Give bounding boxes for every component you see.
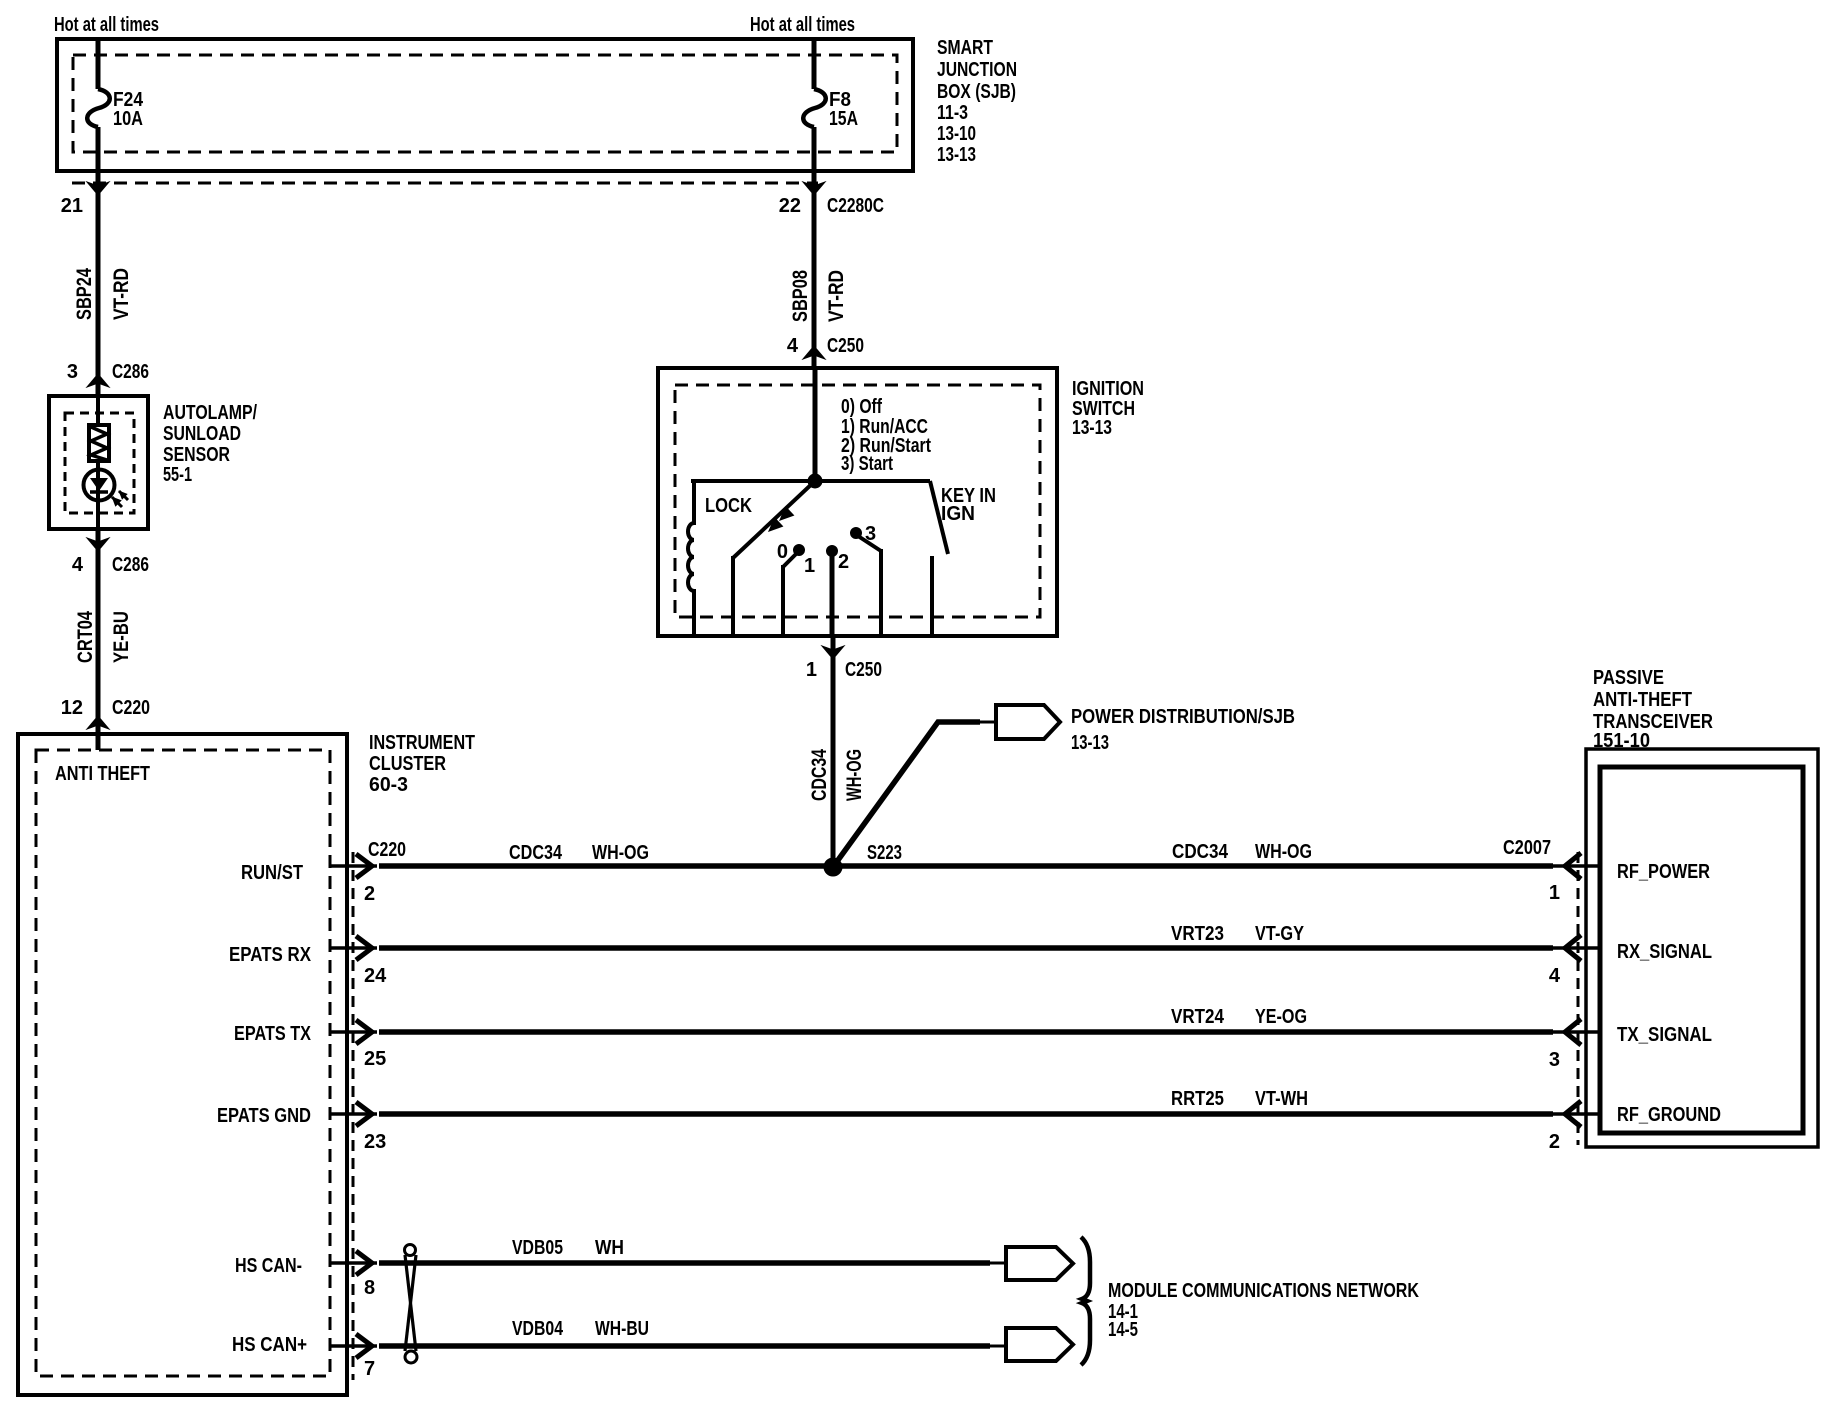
svg-text:2: 2 xyxy=(838,551,849,573)
svg-text:C250: C250 xyxy=(845,659,882,681)
splice S223 node xyxy=(824,858,842,876)
off-page pennant: module network (upper) xyxy=(1006,1247,1073,1280)
svg-text:PASSIVE: PASSIVE xyxy=(1593,667,1664,689)
svg-text:VRT23: VRT23 xyxy=(1171,923,1224,945)
svg-text:RUN/ST: RUN/ST xyxy=(241,862,303,884)
svg-text:CDC34: CDC34 xyxy=(509,842,563,864)
LOCK coil xyxy=(688,479,694,634)
svg-text:C286: C286 xyxy=(112,554,149,576)
wire F8 feed (lower) xyxy=(812,127,817,171)
svg-text:WH: WH xyxy=(595,1237,624,1259)
sensor light arrows xyxy=(112,497,122,507)
transceiver inner box xyxy=(1600,767,1803,1133)
svg-text:12: 12 xyxy=(61,697,83,719)
connector C220 arrow (up) xyxy=(87,716,109,729)
svg-text:3) Start: 3) Start xyxy=(841,453,893,475)
svg-text:MODULE COMMUNICATIONS NETWORK: MODULE COMMUNICATIONS NETWORK xyxy=(1108,1280,1419,1302)
wire VRT24 YE-OG xyxy=(379,1029,1553,1035)
svg-text:4: 4 xyxy=(1549,965,1561,987)
svg-text:VT-RD: VT-RD xyxy=(825,270,848,322)
cluster pin 25 arrow xyxy=(356,1020,372,1044)
fuse F8 15A xyxy=(803,89,826,127)
svg-text:EPATS GND: EPATS GND xyxy=(217,1105,311,1127)
svg-text:4: 4 xyxy=(72,554,84,576)
svg-text:TX_SIGNAL: TX_SIGNAL xyxy=(1617,1024,1712,1046)
svg-text:14-5: 14-5 xyxy=(1108,1319,1138,1341)
svg-text:BOX (SJB): BOX (SJB) xyxy=(937,81,1016,103)
svg-text:INSTRUMENT: INSTRUMENT xyxy=(369,732,475,754)
svg-text:VT-GY: VT-GY xyxy=(1255,923,1305,945)
svg-text:SBP24: SBP24 xyxy=(73,268,96,320)
connector arrow below ignition switch xyxy=(822,646,844,659)
wire F8 feed (upper) xyxy=(812,39,817,89)
svg-text:POWER DISTRIBUTION/SJB: POWER DISTRIBUTION/SJB xyxy=(1071,706,1295,728)
svg-text:0: 0 xyxy=(777,541,788,563)
svg-text:2: 2 xyxy=(1549,1131,1560,1153)
wire SBP24 VT-RD xyxy=(96,171,101,396)
svg-text:VDB05: VDB05 xyxy=(512,1237,563,1259)
sensor internal wire xyxy=(96,396,100,529)
svg-text:IGNITION: IGNITION xyxy=(1072,378,1144,400)
svg-text:13-13: 13-13 xyxy=(1071,732,1109,754)
svg-text:C220: C220 xyxy=(368,839,406,861)
cluster pin 7 arrow xyxy=(356,1334,372,1358)
svg-text:13-13: 13-13 xyxy=(1072,417,1112,439)
transceiver pin 4 stub (RX_SIGNAL) xyxy=(1553,946,1600,950)
wire to power distribution (diagonal) xyxy=(833,722,980,867)
cluster pin 8 arrow xyxy=(356,1251,372,1275)
svg-text:ANTI-THEFT: ANTI-THEFT xyxy=(1593,689,1692,711)
wiper contact line xyxy=(731,556,735,634)
instrument cluster box xyxy=(18,734,347,1395)
svg-text:CRT04: CRT04 xyxy=(74,611,97,663)
svg-text:VRT24: VRT24 xyxy=(1171,1006,1225,1028)
svg-text:EPATS TX: EPATS TX xyxy=(234,1023,312,1045)
transceiver pin 2 stub (RF_GROUND) xyxy=(1553,1112,1600,1116)
svg-text:C2280C: C2280C xyxy=(827,195,884,217)
svg-text:4: 4 xyxy=(787,335,799,357)
wire VDB04 WH-BU xyxy=(379,1343,990,1349)
svg-text:C220: C220 xyxy=(112,697,150,719)
cluster entry wire xyxy=(96,728,100,750)
svg-text:1: 1 xyxy=(1549,882,1560,904)
contact 0 xyxy=(794,545,805,556)
svg-text:SENSOR: SENSOR xyxy=(163,444,230,466)
contact 2 xyxy=(827,546,838,557)
svg-text:24: 24 xyxy=(364,965,387,987)
switch common bus line xyxy=(691,479,930,483)
svg-text:13-13: 13-13 xyxy=(937,144,976,166)
cluster pin 2 stub (RUN/ST) xyxy=(330,864,377,868)
svg-text:25: 25 xyxy=(364,1048,386,1070)
transceiver outer box xyxy=(1586,749,1818,1147)
svg-text:VT-WH: VT-WH xyxy=(1255,1088,1308,1110)
wire CDC34 WH-OG (right segment) xyxy=(833,863,1553,869)
svg-text:10A: 10A xyxy=(113,108,143,130)
wire F24 feed (upper) xyxy=(96,39,101,89)
svg-text:3: 3 xyxy=(67,361,78,383)
connector C2007 dashed line xyxy=(1577,852,1580,1145)
svg-text:C2007: C2007 xyxy=(1503,837,1551,859)
svg-text:IGN: IGN xyxy=(941,503,975,525)
svg-text:WH-OG: WH-OG xyxy=(592,842,649,864)
svg-text:WH-OG: WH-OG xyxy=(1255,841,1312,863)
cluster pin 8 stub (HS CAN-) xyxy=(330,1261,377,1265)
connector C286 arrow (up) xyxy=(87,374,109,387)
connector C250 arrow (up) xyxy=(803,346,825,359)
svg-text:RRT25: RRT25 xyxy=(1171,1088,1224,1110)
svg-text:22: 22 xyxy=(779,195,801,217)
svg-text:8: 8 xyxy=(364,1277,375,1299)
wire VRT23 VT-GY xyxy=(379,945,1553,951)
cluster pin 23 stub (EPATS GND) xyxy=(330,1112,377,1116)
svg-text:EPATS RX: EPATS RX xyxy=(229,944,312,966)
svg-text:CLUSTER: CLUSTER xyxy=(369,753,446,775)
svg-text:SBP08: SBP08 xyxy=(789,270,812,322)
svg-text:HS CAN-: HS CAN- xyxy=(235,1255,302,1277)
svg-text:AUTOLAMP/: AUTOLAMP/ xyxy=(163,402,257,424)
svg-text:LOCK: LOCK xyxy=(705,495,752,517)
wire into ignition switch xyxy=(813,368,818,483)
svg-text:13-10: 13-10 xyxy=(937,123,976,145)
svg-text:2: 2 xyxy=(364,883,375,905)
wire CRT04 YE-BU xyxy=(96,529,101,750)
connector C2280C dashed line xyxy=(72,182,818,185)
sensor resistor element xyxy=(89,425,109,461)
connector arrow below SJB pin 21 xyxy=(87,182,109,195)
svg-text:RF_POWER: RF_POWER xyxy=(1617,861,1710,883)
svg-text:7: 7 xyxy=(364,1358,375,1380)
svg-text:Hot at all times: Hot at all times xyxy=(750,14,855,36)
ignition switch box xyxy=(658,368,1057,636)
svg-text:S223: S223 xyxy=(867,842,902,864)
cluster pin 24 arrow xyxy=(356,936,372,960)
transceiver pin 2 arrow xyxy=(1565,1101,1581,1127)
anti-theft dashed border xyxy=(36,750,330,1376)
transceiver pin 3 stub (TX_SIGNAL) xyxy=(1553,1030,1600,1034)
svg-text:23: 23 xyxy=(364,1131,386,1153)
svg-text:YE-BU: YE-BU xyxy=(110,611,133,663)
svg-text:VT-RD: VT-RD xyxy=(110,268,133,320)
wire VDB05 WH xyxy=(379,1260,990,1266)
twisted pair symbol xyxy=(405,1245,416,1256)
svg-text:15A: 15A xyxy=(829,108,858,130)
wire CDC34 WH-OG (vertical) xyxy=(831,634,836,867)
node: switch common junction xyxy=(808,474,822,488)
smart junction box SJB dashed inner border xyxy=(73,55,897,152)
svg-text:JUNCTION: JUNCTION xyxy=(937,59,1017,81)
sensor photodiode xyxy=(84,470,115,501)
svg-text:21: 21 xyxy=(61,195,83,217)
svg-text:Hot at all times: Hot at all times xyxy=(54,14,159,36)
svg-text:VDB04: VDB04 xyxy=(512,1318,564,1340)
svg-text:C250: C250 xyxy=(827,335,864,357)
cluster pin 24 stub (EPATS RX) xyxy=(330,946,377,950)
contact 3 xyxy=(851,528,862,539)
svg-text:0) Off: 0) Off xyxy=(841,396,882,418)
svg-text:RX_SIGNAL: RX_SIGNAL xyxy=(1617,941,1712,963)
smart junction box SJB outline xyxy=(57,39,913,171)
svg-text:1: 1 xyxy=(804,555,815,577)
transceiver pin 1 arrow xyxy=(1565,853,1581,879)
cluster pin 7 stub (HS CAN+) xyxy=(330,1344,377,1348)
wire F24 feed (lower) xyxy=(96,127,101,171)
transceiver pin 3 arrow xyxy=(1565,1019,1581,1045)
svg-text:55-1: 55-1 xyxy=(163,464,192,486)
svg-text:WH-BU: WH-BU xyxy=(595,1318,649,1340)
svg-text:11-3: 11-3 xyxy=(937,102,968,124)
svg-text:CDC34: CDC34 xyxy=(1172,841,1229,863)
KEY IN IGN contact xyxy=(930,556,934,634)
autolamp/sunload sensor box xyxy=(49,396,148,529)
cluster pin 23 arrow xyxy=(356,1102,372,1126)
ignition switch dashed border xyxy=(675,385,1040,617)
cluster pin 2 arrow xyxy=(356,854,372,878)
KEY IN IGN switch blade xyxy=(930,481,948,554)
wire RRT25 VT-WH xyxy=(379,1111,1553,1117)
svg-text:SUNLOAD: SUNLOAD xyxy=(163,423,241,445)
svg-text:ANTI THEFT: ANTI THEFT xyxy=(55,763,150,785)
off-page pennant: module network (lower) xyxy=(1006,1328,1073,1361)
connector arrow below sensor xyxy=(87,538,109,551)
svg-text:RF_GROUND: RF_GROUND xyxy=(1617,1104,1721,1126)
svg-text:SMART: SMART xyxy=(937,37,993,59)
transceiver pin 1 stub (RF_POWER) xyxy=(1553,864,1600,868)
brace xyxy=(1081,1237,1090,1365)
autolamp/sunload sensor dashed border xyxy=(65,413,134,513)
connector C220 dashed line xyxy=(352,852,355,1380)
connector arrow below SJB pin 22 xyxy=(803,182,825,195)
svg-text:WH-OG: WH-OG xyxy=(843,749,866,801)
switch wiper xyxy=(733,481,815,558)
svg-text:C286: C286 xyxy=(112,361,149,383)
svg-text:CDC34: CDC34 xyxy=(808,749,831,801)
wire CDC34 WH-OG (left segment) xyxy=(379,863,833,869)
svg-text:60-3: 60-3 xyxy=(369,774,408,796)
off-page pennant: power distribution xyxy=(996,705,1060,739)
fuse F24 10A xyxy=(87,89,110,127)
svg-text:1: 1 xyxy=(806,659,817,681)
svg-text:YE-OG: YE-OG xyxy=(1255,1006,1307,1028)
wire SBP08 VT-RD xyxy=(812,171,817,368)
transceiver pin 4 arrow xyxy=(1565,935,1581,961)
cluster pin 25 stub (EPATS TX) xyxy=(330,1030,377,1034)
svg-text:3: 3 xyxy=(1549,1049,1560,1071)
svg-text:HS CAN+: HS CAN+ xyxy=(232,1334,307,1356)
